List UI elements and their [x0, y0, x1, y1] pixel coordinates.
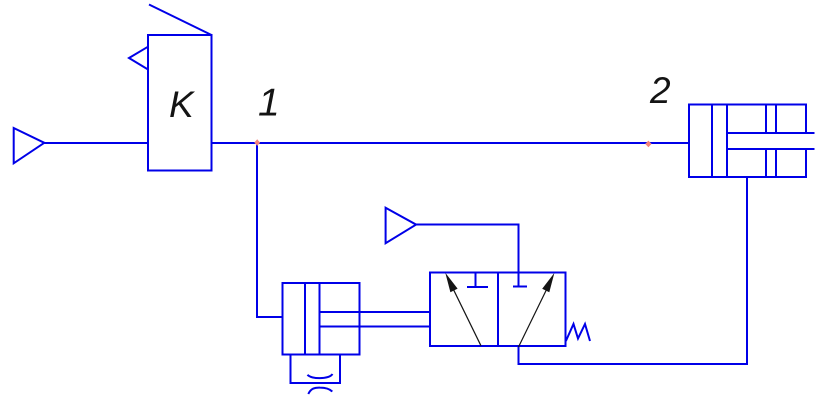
- svg-text:K: K: [169, 84, 196, 125]
- left switching arrow in valve: [453, 288, 481, 346]
- spring on valve: [566, 324, 590, 341]
- wire valve bottom to cylinder port: [519, 177, 747, 364]
- pilot wire to valve: [416, 225, 519, 273]
- small cylinder rod top line: [319, 311, 430, 313]
- main cylinder piston line 1: [711, 105, 713, 178]
- roller box under small cylinder: [291, 355, 340, 383]
- main cylinder body: [689, 105, 806, 178]
- left T port symbol stem: [474, 272, 476, 287]
- wire node1 down to small cylinder: [257, 143, 283, 317]
- main cylinder ring line 2 upper: [775, 105, 777, 134]
- arc below roller box: [308, 388, 332, 394]
- pilot triangle on valve K: [129, 47, 148, 70]
- valve body (3/2 valve): [430, 272, 566, 345]
- small cylinder piston line 2: [318, 283, 320, 355]
- valve middle line: [497, 272, 499, 345]
- svg-text:2: 2: [649, 70, 671, 111]
- valve K body: [148, 35, 212, 171]
- main cylinder rod top line: [727, 132, 815, 134]
- left T port symbol bar: [467, 286, 488, 288]
- main cylinder piston line 2: [726, 105, 728, 178]
- main wire node1 to cylinder: [212, 142, 690, 144]
- right T port symbol stem: [518, 272, 520, 286]
- small cylinder body: [283, 283, 360, 355]
- right switching arrow in valve: [519, 290, 547, 347]
- source triangle (left supply): [14, 128, 45, 163]
- main cylinder rod bottom line: [727, 148, 815, 150]
- lever on valve K: [149, 5, 212, 36]
- svg-text:1: 1: [258, 82, 280, 125]
- arc inside roller box: [308, 374, 333, 378]
- pink grip marker on wire 2: [645, 141, 651, 148]
- pilot triangle (valve pilot supply): [386, 208, 417, 244]
- main cylinder ring line 2 lower: [775, 149, 777, 177]
- main cylinder ring line 1 upper: [765, 105, 767, 134]
- small cylinder rod bottom line: [319, 325, 430, 327]
- wire supply to valve K: [44, 142, 148, 144]
- pink grip marker at node 1: [254, 139, 260, 146]
- right T port symbol bar: [513, 286, 527, 288]
- main cylinder ring line 1 lower: [765, 149, 767, 177]
- small cylinder piston line 1: [304, 283, 306, 355]
